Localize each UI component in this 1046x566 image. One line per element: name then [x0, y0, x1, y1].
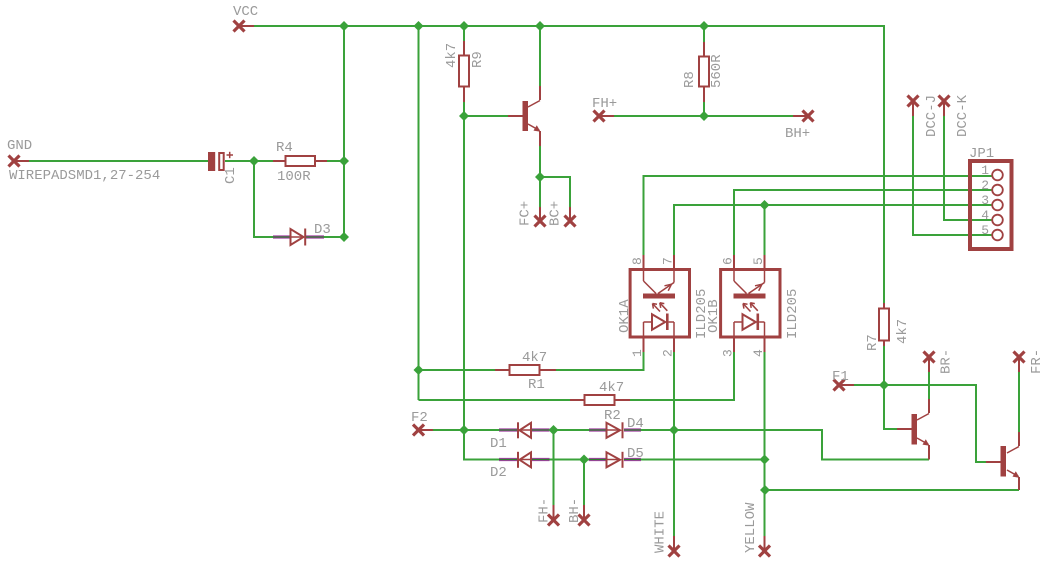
wire GND net from pad to C1	[29, 160, 208, 162]
diode D3	[273, 229, 324, 246]
wire R1 row left	[419, 369, 496, 371]
pad VCC	[234, 21, 245, 32]
wire D3 right to junction	[324, 236, 344, 238]
svg-text:FH-: FH-	[537, 498, 553, 523]
svg-text:OK1A: OK1A	[617, 299, 633, 333]
svg-text:VCC: VCC	[233, 4, 258, 20]
pad WHITE	[669, 546, 680, 557]
svg-text:R2: R2	[604, 408, 621, 424]
wire branch to T2 base	[884, 385, 897, 429]
wire DCC-K to JP1 pin4	[944, 116, 992, 220]
wire T1 emitter down to FC+	[539, 146, 541, 207]
pad YELLOW pin stub	[764, 536, 766, 551]
wire branch to BC+	[540, 177, 570, 207]
svg-text:1: 1	[630, 349, 645, 357]
wire D3 branch	[254, 161, 273, 237]
wire T3 emitter row to YELLOW net	[765, 489, 1019, 491]
pad WHITE pin stub	[673, 536, 675, 551]
svg-text:7: 7	[661, 257, 676, 265]
junction FH- takeoff	[549, 425, 559, 435]
pad FR- pin stub	[1018, 357, 1020, 372]
svg-text:5: 5	[981, 223, 989, 238]
svg-text:R4: R4	[276, 140, 293, 156]
svg-text:D5: D5	[627, 446, 644, 462]
junction D1 row at x464	[459, 425, 469, 435]
pad BR- pin stub	[928, 357, 930, 372]
wire OK1A pin8 to JP1 pin1	[644, 176, 993, 255]
junction T1 emitter branch	[535, 172, 545, 182]
svg-text:ILD205: ILD205	[785, 289, 801, 339]
wire D1 to D4	[550, 429, 590, 431]
svg-text:4k7: 4k7	[895, 319, 911, 344]
wire DCC-J to JP1 pin5	[913, 116, 992, 235]
svg-text:D2: D2	[490, 465, 507, 481]
pad BH+	[803, 111, 814, 122]
junction R4 right	[339, 156, 349, 166]
pad VCC pin stub	[239, 25, 254, 27]
pad DCC-K pin stub	[943, 101, 945, 116]
junction JP1 pin3 net at pin5	[760, 200, 770, 210]
wire T1 base	[464, 115, 508, 117]
junction R1 row left	[414, 365, 424, 375]
wire R9 bottom vertical down to D2 row	[464, 102, 499, 460]
svg-text:JP1: JP1	[969, 146, 994, 162]
junction D3 right	[339, 232, 349, 242]
wire R4 right lead to vertical	[327, 160, 344, 162]
connector JP1	[970, 161, 1012, 249]
wire BR- to T2 collector	[928, 372, 930, 399]
wire FH- drop	[553, 430, 555, 505]
pad FC+ pin stub	[539, 207, 541, 221]
pad GND pin stub	[14, 160, 29, 162]
junction on rail at x418	[414, 21, 424, 31]
wire FR- to T3 collector	[1018, 372, 1020, 432]
svg-text:560R: 560R	[709, 54, 725, 88]
wire VCC top rail	[254, 26, 884, 303]
svg-text:1: 1	[981, 163, 989, 178]
wire C1 to R4	[225, 160, 273, 162]
resistor R8	[699, 42, 709, 102]
wire vertical from VCC rail to R1/R2 rows	[418, 26, 420, 400]
wire D4 row to T2 emitter	[641, 430, 929, 460]
junction YELLOW net D5 row	[760, 455, 770, 465]
wire vertical from VCC rail to D3 net	[343, 26, 345, 237]
pad FC+	[535, 216, 546, 227]
svg-text:BR-: BR-	[939, 349, 955, 374]
svg-text:4: 4	[751, 349, 766, 357]
svg-text:GND: GND	[7, 138, 32, 154]
resistor R4	[273, 156, 327, 166]
svg-text:2: 2	[981, 178, 989, 193]
optocoupler OK1A	[630, 255, 689, 352]
svg-text:DCC-J: DCC-J	[924, 95, 940, 137]
pad FH- pin stub	[553, 505, 555, 520]
svg-text:6: 6	[721, 257, 736, 265]
pad F2 pin stub	[419, 429, 434, 431]
pad FR-	[1014, 352, 1025, 363]
svg-text:DCC-K: DCC-K	[955, 94, 971, 137]
svg-text:YELLOW: YELLOW	[743, 502, 759, 553]
transistor T3	[986, 432, 1020, 490]
svg-text:3: 3	[721, 349, 736, 357]
pad BC+ pin stub	[569, 207, 571, 221]
wire R2 right to OK1B pin3	[630, 352, 734, 400]
wire R2 row left	[419, 399, 571, 401]
wire R7 bottom to junction	[883, 346, 885, 385]
pad BC+	[565, 216, 576, 227]
pad DCC-J pin stub	[912, 101, 914, 116]
svg-text:C1: C1	[223, 167, 239, 184]
svg-text:FH+: FH+	[592, 96, 617, 112]
junction BH- takeoff	[579, 455, 589, 465]
pad GND	[9, 156, 20, 167]
wire OK1A pin2 down to WHITE	[673, 352, 675, 536]
resistor R1	[495, 365, 556, 375]
transistor T2	[897, 399, 930, 460]
svg-text:2: 2	[661, 349, 676, 357]
svg-text:FC+: FC+	[518, 201, 534, 226]
pad BR-	[924, 352, 935, 363]
wire R9 top	[463, 26, 465, 41]
svg-text:WHITE: WHITE	[653, 511, 669, 553]
pad BH+ pin stub	[793, 115, 808, 117]
svg-text:R9: R9	[470, 51, 486, 68]
svg-text:FR-: FR-	[1029, 349, 1045, 374]
junction YELLOW net T3 emitter row	[760, 485, 770, 495]
svg-text:R1: R1	[528, 377, 545, 393]
wire D5 to YELLOW vertical	[641, 459, 765, 461]
wire OK1B pin6 to JP1 pin2	[734, 190, 992, 255]
resistor R9	[459, 41, 469, 102]
svg-text:4k7: 4k7	[599, 380, 624, 396]
svg-text:5: 5	[751, 257, 766, 265]
pad FH+	[594, 111, 605, 122]
pad DCC-K	[939, 96, 950, 107]
optocoupler OK1B	[721, 255, 780, 352]
resistor R2	[570, 395, 630, 405]
svg-text:WIREPADSMD1,27-254: WIREPADSMD1,27-254	[9, 168, 160, 184]
svg-text:D3: D3	[314, 222, 331, 238]
pad F1	[834, 380, 845, 391]
svg-text:BH+: BH+	[785, 126, 810, 142]
junction on rail at R9	[459, 21, 469, 31]
pad FH-	[548, 515, 559, 526]
resistor R7	[879, 303, 889, 346]
diode D4	[589, 422, 641, 438]
svg-text:D1: D1	[490, 436, 507, 452]
wire OK1A pin7 to JP1 pin3	[674, 205, 992, 255]
junction WHITE net D4 row	[669, 425, 679, 435]
pad YELLOW	[759, 546, 770, 557]
wire T1 collector to rail	[539, 26, 541, 86]
pad BH-	[579, 515, 590, 526]
svg-text:4: 4	[981, 208, 989, 223]
wire R1 right to OK1A pin1	[556, 352, 644, 370]
svg-text:BC+: BC+	[548, 201, 564, 226]
wire F2 to D1	[433, 429, 499, 431]
svg-text:D4: D4	[627, 416, 644, 432]
svg-text:BH-: BH-	[567, 498, 583, 523]
junction R9 bottom T1 base	[459, 111, 469, 121]
wire OK1B pin5 up to pin3 net	[764, 205, 766, 255]
svg-text:4k7: 4k7	[522, 350, 547, 366]
transistor T1	[508, 86, 541, 146]
junction R8 bottom FH+ row	[699, 111, 709, 121]
svg-text:F1: F1	[832, 369, 849, 385]
junction on rail at R8	[699, 21, 709, 31]
wire R8 bottom	[703, 102, 705, 116]
pad FH+ pin stub	[599, 115, 614, 117]
pad F1 pin stub	[839, 384, 854, 386]
wire F1 row and branch to T3 base	[854, 385, 986, 462]
junction F1 R7 T2 base	[879, 380, 889, 390]
svg-text:3: 3	[981, 193, 989, 208]
capacitor C1	[208, 152, 233, 171]
pad F2	[413, 425, 424, 436]
svg-text:OK1B: OK1B	[706, 299, 722, 333]
wire BH- drop	[583, 460, 585, 506]
wire R8 top	[703, 26, 705, 42]
svg-text:F2: F2	[411, 410, 428, 426]
pad BH- pin stub	[583, 505, 585, 520]
junction on rail at T1 collector	[535, 21, 545, 31]
diode D2	[499, 452, 550, 468]
svg-text:100R: 100R	[277, 169, 311, 185]
wire D2 to D5	[550, 459, 590, 461]
svg-text:4k7: 4k7	[444, 43, 460, 68]
junction on rail at x344	[339, 21, 349, 31]
pad DCC-J	[908, 96, 919, 107]
junction C1 R4 D3	[249, 156, 259, 166]
svg-text:8: 8	[630, 257, 645, 265]
diode D1	[499, 422, 550, 438]
wire FH+ to BH+ row	[614, 115, 793, 117]
diode D5	[589, 452, 641, 468]
svg-text:R7: R7	[865, 334, 881, 351]
wire OK1B pin4 down to YELLOW	[764, 352, 766, 536]
svg-text:R8: R8	[682, 71, 698, 88]
